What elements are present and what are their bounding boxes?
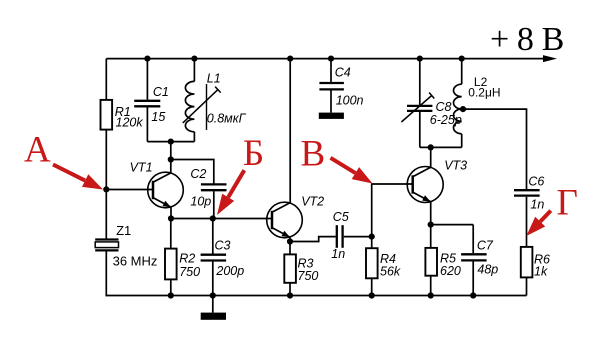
junction VT1 emitter / R2	[168, 215, 174, 221]
svg-text:C2: C2	[190, 167, 206, 181]
wire C8/L2 bottom row	[420, 146, 462, 148]
junction bottom rail / R2	[168, 292, 174, 298]
svg-text:0.8мкГ: 0.8мкГ	[207, 112, 247, 126]
node B (Б)	[217, 133, 264, 215]
svg-text:C7: C7	[477, 239, 494, 253]
wire VT1 base	[106, 189, 153, 191]
junction VT2 emitter / R3 / C5	[287, 238, 293, 244]
wire L2 tap to C6	[462, 109, 527, 189]
svg-text:VT2: VT2	[301, 195, 324, 209]
svg-text:Z1: Z1	[116, 223, 131, 238]
node V (В)	[301, 134, 373, 184]
svg-text:VT1: VT1	[130, 160, 153, 174]
svg-text:C4: C4	[335, 66, 351, 80]
transistor VT3	[407, 159, 467, 203]
node A	[24, 130, 103, 190]
svg-text:C6: C6	[528, 175, 544, 189]
wire emitter to C7	[431, 224, 474, 226]
capacitor C4	[319, 59, 363, 113]
junction top rail / C4	[328, 56, 334, 62]
junction node A on left rail	[103, 186, 109, 192]
svg-text:620: 620	[440, 264, 461, 278]
junction bottom rail / C3 / ground	[210, 292, 216, 298]
junction bottom rail / C7	[470, 292, 476, 298]
svg-text:1n: 1n	[530, 197, 544, 211]
svg-text:1k: 1k	[534, 265, 548, 279]
resistor R3	[284, 242, 318, 296]
junction top rail / L2	[459, 56, 465, 62]
junction bottom rail / R5	[428, 292, 434, 298]
svg-text:56k: 56k	[380, 265, 401, 279]
wire tank bottom	[147, 141, 194, 143]
junction top rail / L1	[191, 56, 197, 62]
svg-text:C1: C1	[153, 85, 169, 99]
junction VT1 collector / C2	[168, 156, 174, 162]
svg-text:C3: C3	[215, 238, 231, 252]
svg-text:750: 750	[179, 265, 200, 279]
junction node B / C3	[210, 215, 216, 221]
capacitor C3	[201, 219, 245, 296]
capacitor C5	[331, 210, 371, 261]
svg-text:100n: 100n	[336, 93, 364, 107]
svg-text:120k: 120k	[116, 115, 144, 129]
svg-text:0.2μH: 0.2μH	[468, 86, 500, 100]
resistor R5	[425, 225, 461, 296]
wire left rail middle	[105, 129, 107, 239]
transistor VT1	[130, 160, 184, 218]
wire node B to VT3 base	[372, 184, 413, 237]
junction bottom rail / R4	[369, 292, 375, 298]
resistor R4	[366, 237, 401, 296]
svg-text:В: В	[301, 134, 326, 175]
capacitor C7	[461, 225, 498, 296]
resistor R2	[165, 219, 200, 296]
resistor R1	[101, 100, 144, 130]
wire bottom rail	[106, 295, 526, 297]
transistor VT2	[267, 195, 324, 242]
ground below C4	[319, 113, 344, 119]
crystal Z1	[95, 223, 157, 268]
junction top rail / C1	[144, 56, 150, 62]
junction L2 tap	[460, 106, 466, 112]
svg-text:C8: C8	[436, 100, 452, 114]
capacitor C1	[134, 59, 169, 142]
resistor R6	[521, 247, 550, 296]
junction bottom rail / R3	[287, 292, 293, 298]
svg-text:VT3: VT3	[444, 159, 467, 173]
svg-text:R2: R2	[179, 252, 195, 266]
svg-text:А: А	[24, 130, 51, 171]
svg-text:Г: Г	[557, 183, 578, 224]
junction top rail / VT2 collector	[287, 56, 293, 62]
svg-text:36 MHz: 36 MHz	[113, 253, 158, 268]
node G (Г)	[526, 183, 578, 237]
junction C8 / L2 / VT3 collector	[428, 144, 434, 150]
wire VT1 collector	[170, 142, 172, 173]
svg-text:1n: 1n	[331, 247, 345, 261]
svg-text:L1: L1	[207, 72, 221, 86]
capacitor C8 (trimmer)	[401, 59, 461, 148]
svg-text:48p: 48p	[477, 263, 498, 277]
ground below C3	[201, 296, 226, 320]
svg-text:Б: Б	[243, 133, 264, 174]
wire left rail upper	[105, 59, 107, 101]
junction VT3 emitter / R5 / C7	[428, 222, 434, 228]
svg-text:15: 15	[151, 110, 165, 124]
wire emitter row VT1-VT2	[171, 218, 272, 220]
wire C2 takeoff	[171, 160, 214, 185]
wire VT2 collector	[289, 59, 291, 203]
capacitor C6	[514, 175, 544, 247]
capacitor C2	[190, 167, 226, 219]
junction top rail / C8	[417, 56, 423, 62]
junction C5 / R4 / node V	[369, 234, 375, 240]
wire VT3 collector	[430, 147, 432, 167]
svg-text:750: 750	[298, 269, 319, 283]
wire top +8V rail	[106, 58, 549, 60]
inductor L2 (tapped)	[454, 59, 501, 148]
svg-text:+ 8 В: + 8 В	[490, 21, 564, 58]
supply arrow head	[543, 55, 557, 62]
wire VT2 emitter to C5	[290, 237, 336, 242]
inductor L1 (variable)	[183, 59, 247, 142]
wire VT3 emitter	[430, 202, 432, 225]
wire left rail lower	[105, 250, 107, 296]
junction tank bottom / VT1 collector	[168, 139, 174, 145]
svg-text:200p: 200p	[215, 264, 244, 278]
svg-text:10p: 10p	[190, 194, 211, 208]
svg-text:C5: C5	[333, 210, 349, 224]
